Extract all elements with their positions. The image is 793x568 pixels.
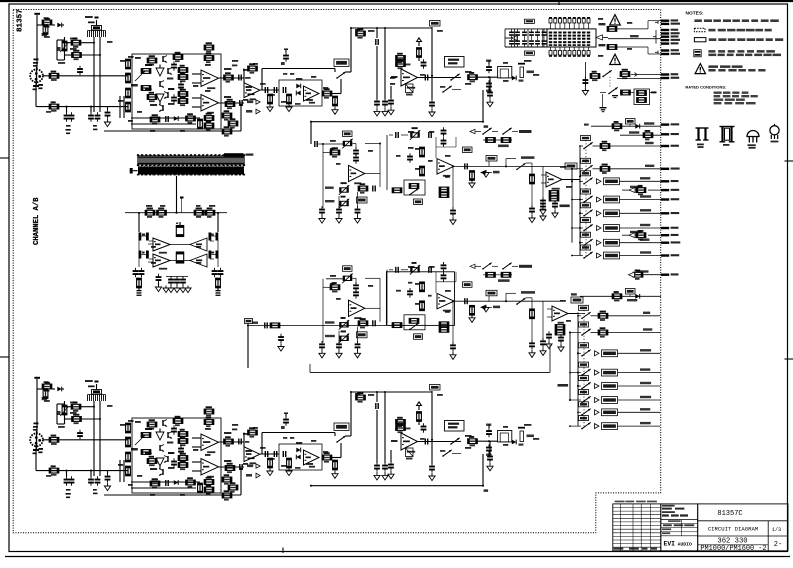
potentiometer VR10 (eq upper) xyxy=(410,127,420,140)
node labels box (ch A) xyxy=(135,57,211,106)
node label (eq lower) xyxy=(498,279,510,282)
node AC voltage symbol xyxy=(694,28,705,32)
wire (ch A) xyxy=(119,96,121,118)
wire (pgm bus A) xyxy=(541,175,579,183)
connector J14 edge pin xyxy=(661,49,679,52)
wire (ch B) xyxy=(81,406,95,408)
resistor R2 (ch A) xyxy=(42,25,48,37)
resistor R107 xyxy=(590,71,600,81)
resistor R14 (ch A) xyxy=(178,72,188,82)
node panel symbol xyxy=(694,50,701,57)
node shield (ch A) xyxy=(33,59,40,107)
capacitor C71 (eq lower) xyxy=(428,267,432,273)
switch SW29 xyxy=(602,70,612,77)
wire (bus feed B) xyxy=(568,313,578,315)
potentiometer VR3 (ch A) xyxy=(131,71,145,87)
resistor R19 (ch A) xyxy=(204,53,214,63)
capacitor C50 xyxy=(168,276,186,286)
resistor R99 (eq lower) xyxy=(439,327,449,332)
node head-amp block outline (ch A) xyxy=(132,54,221,129)
capacitor C22 (ch A) xyxy=(486,60,492,94)
wire (ch A) xyxy=(81,54,100,56)
capacitor C37 (ch B) xyxy=(375,392,379,463)
wire (ch B) xyxy=(384,392,386,463)
node labels second stage (ch A) xyxy=(246,73,328,105)
connector J24 edge pin xyxy=(661,198,679,201)
op-amp U9 (ch B) xyxy=(304,450,320,468)
capacitor C78 (eq lower) xyxy=(278,334,284,351)
node bank label bottom xyxy=(524,51,534,55)
switch SW18 bus row y228 xyxy=(571,227,583,229)
resistor R36 (ch A) xyxy=(396,53,406,63)
switch SW17 bus row y213.3 xyxy=(579,212,583,214)
wire (eq lower) xyxy=(353,278,357,283)
wire (ch A) xyxy=(192,106,201,108)
ground (eq lower) xyxy=(483,305,489,312)
node note1 text xyxy=(694,19,778,22)
resistor R50 (ch B) xyxy=(173,416,183,426)
switch SW20 bus row y255.5 xyxy=(571,255,583,257)
node label (eq lower) xyxy=(357,332,368,338)
resistor R47 (ch B) xyxy=(126,452,131,462)
node DC voltage text xyxy=(709,38,783,41)
op-amp U11 xyxy=(153,238,170,254)
wire (ch A) xyxy=(477,76,498,78)
node input terminal (ch B) xyxy=(34,377,40,386)
ground xyxy=(185,286,191,293)
resistor R4 (ch A) xyxy=(72,50,82,60)
resistor R37 (ch A) xyxy=(396,59,406,69)
capacitor C9 (ch A) xyxy=(239,100,243,106)
op-amp U3 (ch A) xyxy=(244,83,260,100)
capacitor C63 (eq upper) xyxy=(529,205,535,222)
diode D1 (ch A) xyxy=(52,23,64,28)
capacitor C81 (pgm bus B) xyxy=(558,334,564,351)
switch SW6 (ch B) xyxy=(440,450,461,457)
node phantom int 2 xyxy=(608,35,661,39)
wire (ch A) xyxy=(66,107,68,113)
resistor R70 (ch B) xyxy=(286,458,292,475)
connector J30 edge pin xyxy=(661,273,679,276)
node assign arrow (eq lower) xyxy=(470,264,481,268)
op-amp U7 (ch B) xyxy=(201,459,219,478)
switch SW4 (ch B) xyxy=(335,433,346,458)
connector J8 edge pin xyxy=(661,23,680,26)
capacitor C46 xyxy=(176,252,183,263)
wire (ch A) xyxy=(483,90,488,128)
capacitor C64 (eq upper) xyxy=(540,203,546,220)
switch SW2 (ch A) xyxy=(450,74,460,81)
op-amp U1 (ch A) xyxy=(201,70,219,89)
capacitor C74 (eq lower) xyxy=(464,298,468,304)
resistor R5 (ch A) xyxy=(49,71,59,81)
wire (ch A) xyxy=(36,22,38,70)
wire (ch A) xyxy=(65,54,73,56)
wire (eq lower) xyxy=(483,274,512,276)
connector J25 edge pin xyxy=(661,212,679,215)
capacitor C7 (ch A) xyxy=(178,81,184,91)
wire (ch B) xyxy=(119,460,121,482)
wire (ch B) xyxy=(260,453,279,455)
potentiometer VR9 (eq upper) xyxy=(325,196,349,209)
node bias marks (ch B) xyxy=(93,489,98,494)
transistor Q9 (ch B) xyxy=(156,458,164,470)
svg-text:NOTES:: NOTES: xyxy=(686,11,705,17)
node POSITION text xyxy=(560,205,570,208)
connector J28 edge pin xyxy=(661,241,680,244)
potentiometer VR11 (eq lower) xyxy=(342,274,352,284)
switch SW12 (eq lower) xyxy=(516,298,526,305)
capacitor C60 (eq upper) xyxy=(436,127,456,158)
wire (ch B) xyxy=(351,391,432,393)
capacitor C21 (ch A) xyxy=(487,77,493,107)
resistor R82 (eq upper) xyxy=(358,183,368,193)
connector J4 XLR input (ch B) xyxy=(30,431,43,453)
node label (eq upper) xyxy=(414,199,423,205)
capacitor C85 (ch A) xyxy=(171,94,177,104)
capacitor C31 (ch B) xyxy=(239,464,243,470)
resistor array R-phantom xyxy=(549,17,590,57)
switch SW10 (eq lower) xyxy=(482,263,498,270)
node labels second stage (ch B) xyxy=(246,437,328,469)
resistor R71 (ch B) xyxy=(322,452,332,462)
wire (eq lower) xyxy=(386,270,388,325)
wire (ch B) xyxy=(192,437,201,439)
capacitor C69 (eq lower) xyxy=(354,341,360,358)
wire (ch A) xyxy=(384,28,386,99)
resistor R26 (ch A) xyxy=(198,119,203,129)
transistor Q2 (ch A) xyxy=(156,65,164,77)
resistor R94 (eq lower) xyxy=(420,282,425,292)
wire (ch A) xyxy=(351,27,432,29)
wire xyxy=(217,213,219,232)
switch SW28 bus row B y426.1 xyxy=(569,425,581,427)
node label (eq lower) xyxy=(414,334,423,340)
wire xyxy=(176,176,178,213)
node phantom rails xyxy=(505,29,547,47)
resistor R3 (ch A) xyxy=(71,38,81,48)
switch SW14 bus row y168.8 xyxy=(571,168,583,170)
resistor R44 (ch B) xyxy=(49,465,59,475)
ground xyxy=(180,286,186,293)
capacitor C51 (eq upper) xyxy=(314,141,318,147)
transistor Q14 (ch B) xyxy=(164,456,169,463)
connector J22 edge pin xyxy=(661,180,679,183)
capacitor C43 (ch B) xyxy=(487,441,493,471)
op-amp U6 (ch B) xyxy=(201,434,219,453)
wire (ch B) xyxy=(477,440,498,442)
node labels (ch B) xyxy=(145,428,174,454)
node EVI AUDIO xyxy=(664,541,693,548)
wire (ch B) xyxy=(192,470,201,472)
node bias marks (ch B) xyxy=(66,489,71,498)
switch SW1 (ch A) xyxy=(335,69,346,94)
resistor R46 (ch B) xyxy=(126,437,131,447)
connector J10 edge pin xyxy=(661,32,680,35)
capacitor C3 (ch A) xyxy=(69,112,75,122)
op-amp U8 (ch B) xyxy=(244,447,260,464)
resistor R32 (ch A) xyxy=(286,94,292,111)
connector J12 edge pin xyxy=(661,39,680,42)
capacitor C40 (ch B) xyxy=(421,423,427,433)
wire (ch A) xyxy=(219,102,245,104)
node pin header R1 xyxy=(209,233,219,241)
connector J18 edge pin xyxy=(661,123,679,126)
node revision table xyxy=(613,504,661,551)
switch SW30 xyxy=(600,87,618,94)
resistor R59 (ch B) xyxy=(204,484,214,494)
node PFL row xyxy=(584,119,661,132)
resistor R67 (ch B) xyxy=(222,490,232,500)
capacitor C2 (ch A) xyxy=(64,112,70,122)
resistor R77 xyxy=(145,208,155,218)
node labels input (ch B) xyxy=(44,382,113,477)
node link terminal xyxy=(180,197,184,213)
ground (eq upper) xyxy=(483,170,489,177)
potentiometer VR14 (eq lower) xyxy=(410,262,420,275)
transistor Q6 (ch B) xyxy=(162,420,167,427)
node pin header R2 xyxy=(209,251,219,259)
resistor R100 (eq lower) xyxy=(486,272,496,277)
node direct-out row xyxy=(629,270,662,280)
wire (ch A) xyxy=(99,37,101,112)
connector J29 edge pin xyxy=(661,254,679,257)
connector J26 edge pin xyxy=(661,227,679,230)
switch SW24 bus row B y372.6 xyxy=(569,372,581,374)
wire (ch B) xyxy=(96,384,98,390)
node switch bank row 2 xyxy=(137,166,245,175)
node return arrow (eq lower) xyxy=(480,305,500,310)
wire (ch A) xyxy=(37,24,42,26)
node legend to18 xyxy=(770,124,779,143)
resistor R63 (ch B) xyxy=(186,477,196,487)
resistor R58 (ch B) xyxy=(204,477,214,487)
wire (ch B) xyxy=(262,432,335,434)
svg-text:AUDIO: AUDIO xyxy=(678,541,693,547)
node phantom warn bottom xyxy=(610,54,621,64)
resistor R40 (ch B) xyxy=(42,389,48,401)
potentiometer VR13 (eq lower) xyxy=(325,331,349,344)
resistor R112 (ch B) xyxy=(141,450,151,455)
op-amp U4 (ch A) xyxy=(304,86,320,104)
capacitor C16 (ch A) xyxy=(374,98,380,116)
wire (ch B) xyxy=(192,461,201,463)
capacitor C57 (eq upper) xyxy=(389,132,408,138)
capacitor C10 (ch A) xyxy=(165,116,169,122)
switch SW7 (eq upper) xyxy=(482,128,498,135)
capacitor C24 (ch B) xyxy=(64,476,70,486)
capacitor C53 (eq upper) xyxy=(372,186,376,192)
wire (eq lower) xyxy=(506,293,516,301)
connector J27 edge pin xyxy=(661,234,679,237)
op-amp U19 (pgm bus A) xyxy=(546,172,562,190)
wire (ch B) xyxy=(418,441,462,443)
resistor R48 (ch B) xyxy=(126,466,131,476)
resistor R10 (ch A) xyxy=(126,102,131,112)
resistor R95 (eq lower) xyxy=(420,301,425,311)
wire xyxy=(149,238,190,261)
resistor R20 (ch A) xyxy=(204,113,214,123)
resistor R31 (ch A) xyxy=(267,94,273,111)
node labels out (ch B) xyxy=(224,432,249,462)
node phantom in-arrow xyxy=(596,35,608,40)
wire (ch B) xyxy=(332,392,351,458)
capacitor C77 (eq lower) xyxy=(540,338,546,355)
capacitor C66 (eq lower) xyxy=(372,320,376,326)
op-amp U10 (ch B) xyxy=(401,433,418,453)
capacitor C29 (ch B) xyxy=(178,445,184,455)
resistor R83 (eq upper) xyxy=(420,147,425,157)
node pad junction (ch B) xyxy=(57,404,65,424)
resistor R111 (ch B) xyxy=(141,433,151,438)
node phantom warn top xyxy=(610,15,621,25)
node pin header L2 xyxy=(139,251,149,259)
resistor R22 (ch A) xyxy=(224,72,234,82)
wire (ch B) xyxy=(429,391,435,481)
svg-text:EVI: EVI xyxy=(664,541,676,548)
node bus rail 2 xyxy=(571,169,573,243)
resistor R45 (ch B) xyxy=(126,423,131,433)
wire (eq upper) xyxy=(454,165,560,167)
node chassis xyxy=(600,94,607,112)
capacitor C52 (eq upper) xyxy=(353,147,359,164)
capacitor C83 xyxy=(581,76,588,86)
transistor Q11 (ch A) xyxy=(167,68,172,75)
resistor R78 xyxy=(157,208,167,218)
potentiometer VR5 (ch B) xyxy=(57,401,68,424)
wire (ch B) xyxy=(483,454,488,492)
wire (eq lower) xyxy=(526,298,532,310)
capacitor C86 (ch B) xyxy=(171,425,177,435)
transistor Q13 (ch B) xyxy=(167,432,172,439)
transistor Q10 (ch B) xyxy=(159,469,164,476)
diode D3 (ch A) xyxy=(296,84,300,96)
resistor R29 (ch A) xyxy=(222,126,232,136)
wire (ch B) xyxy=(219,441,245,443)
node LA-AMP label (ch A) xyxy=(334,59,349,67)
resistor R62 (ch B) xyxy=(150,478,160,488)
capacitor C70 (eq lower) xyxy=(389,267,408,273)
transistor Q3 (ch A) xyxy=(159,81,164,88)
wire (eq lower) xyxy=(452,301,454,343)
node panel text xyxy=(708,50,781,56)
node POSITION text B xyxy=(558,384,569,387)
op-amp U14 mirrored xyxy=(190,254,207,267)
switch SW22 bus row B y332.5 xyxy=(569,332,581,334)
switch SW19 bus row y242.7 xyxy=(579,242,583,244)
transistor Q12 (ch A) xyxy=(164,92,169,99)
wire xyxy=(13,10,661,533)
wire (ch A) xyxy=(131,117,200,119)
node label (eq upper) xyxy=(357,197,368,203)
wire (ch A) xyxy=(96,20,98,26)
capacitor C82 (pgm bus B) xyxy=(546,331,552,348)
wire (eq lower) xyxy=(323,279,330,343)
connector J13 edge pin xyxy=(661,42,679,45)
resistor R108 xyxy=(620,69,637,79)
wire (eq upper) xyxy=(452,166,454,208)
node phantom int 3 xyxy=(599,44,662,54)
switch SW21 bus row B y315.8 xyxy=(577,315,581,317)
capacitor C14 (ch A) xyxy=(283,87,287,93)
node gang dash xyxy=(585,140,587,256)
wire (ch B) xyxy=(104,494,241,496)
resistor R18 (ch A) xyxy=(204,42,214,52)
node LA-AMP label (ch B) xyxy=(334,423,349,431)
op-amp U16 (eq upper) xyxy=(437,159,454,177)
resistor R55 (ch B) xyxy=(147,456,157,466)
node gang dash B xyxy=(583,310,585,427)
wire (ch A) xyxy=(332,28,351,94)
capacitor C84 (ch A) xyxy=(171,61,177,71)
resistor R52 (ch B) xyxy=(178,436,188,446)
capacitor C42 (ch B) xyxy=(425,439,429,445)
capacitor C18 (ch A) xyxy=(421,59,427,69)
node hpf trim (ch A) xyxy=(406,84,414,96)
resistor R15 (ch A) xyxy=(178,89,188,99)
resistor R96 (eq lower) xyxy=(469,306,475,323)
capacitor C11 (ch A) xyxy=(281,49,289,66)
wire (ch B) xyxy=(36,470,128,472)
node signature block xyxy=(661,504,698,551)
resistor R17 (ch A) xyxy=(147,92,157,102)
diode D2 (ch A) xyxy=(174,116,178,121)
resistor R109 (ch A) xyxy=(141,69,151,74)
node bus rail xyxy=(579,146,581,256)
resistor R13 (ch A) xyxy=(178,65,188,75)
wire (ch A) xyxy=(219,77,245,79)
connector J11 edge pin xyxy=(661,35,679,38)
connector J16 edge pin xyxy=(661,73,678,76)
node C462 label (ch A) xyxy=(430,21,441,27)
wire (ch B) xyxy=(65,406,72,408)
node tone block outline (eq lower) xyxy=(386,272,454,326)
wire (ch A) xyxy=(192,97,201,99)
node tick xyxy=(282,548,284,554)
resistor R12 (ch A) xyxy=(173,52,183,62)
connector J5 insert jack (ch B) xyxy=(498,431,517,445)
resistor R60 (ch B) xyxy=(224,436,234,446)
node switch-bank connector xyxy=(130,168,138,174)
switch SW8 (eq upper) xyxy=(502,128,531,135)
op-amp U20 (pgm bus B) xyxy=(552,306,568,324)
connector J21 edge pin xyxy=(661,168,680,171)
resistor R54 (ch B) xyxy=(178,460,188,470)
capacitor C36 (ch B) xyxy=(283,451,287,457)
node bus return row xyxy=(622,185,661,195)
svg-text:CIRCUIT DIAGRAM: CIRCUIT DIAGRAM xyxy=(708,526,758,533)
node tap (eq lower) xyxy=(486,290,497,301)
resistor R43 (ch B) xyxy=(49,435,59,445)
capacitor C39 (ch B) xyxy=(382,462,388,480)
switch SW16 bus row y199.5 xyxy=(571,199,583,201)
resistor R88 (eq upper) xyxy=(439,193,449,198)
resistor R85 (eq upper) xyxy=(469,171,475,188)
node safety text xyxy=(708,65,765,71)
capacitor C13 (ch A) xyxy=(274,87,278,93)
potentiometer VR4 (ch B) xyxy=(88,386,106,402)
wire (pgm bus B) xyxy=(547,309,585,317)
node tap (eq lower) xyxy=(245,319,253,326)
wire (eq lower) xyxy=(326,278,343,280)
resistor R25 (ch A) xyxy=(186,113,196,123)
switch SW26 bus row B y400 xyxy=(569,399,581,401)
resistor R53 (ch B) xyxy=(178,453,188,463)
capacitor C12 (ch A) xyxy=(265,87,269,93)
capacitor C75 (eq lower) xyxy=(450,342,456,359)
resistor R49 (ch B) xyxy=(147,419,157,429)
wire (eq upper) xyxy=(542,167,544,205)
